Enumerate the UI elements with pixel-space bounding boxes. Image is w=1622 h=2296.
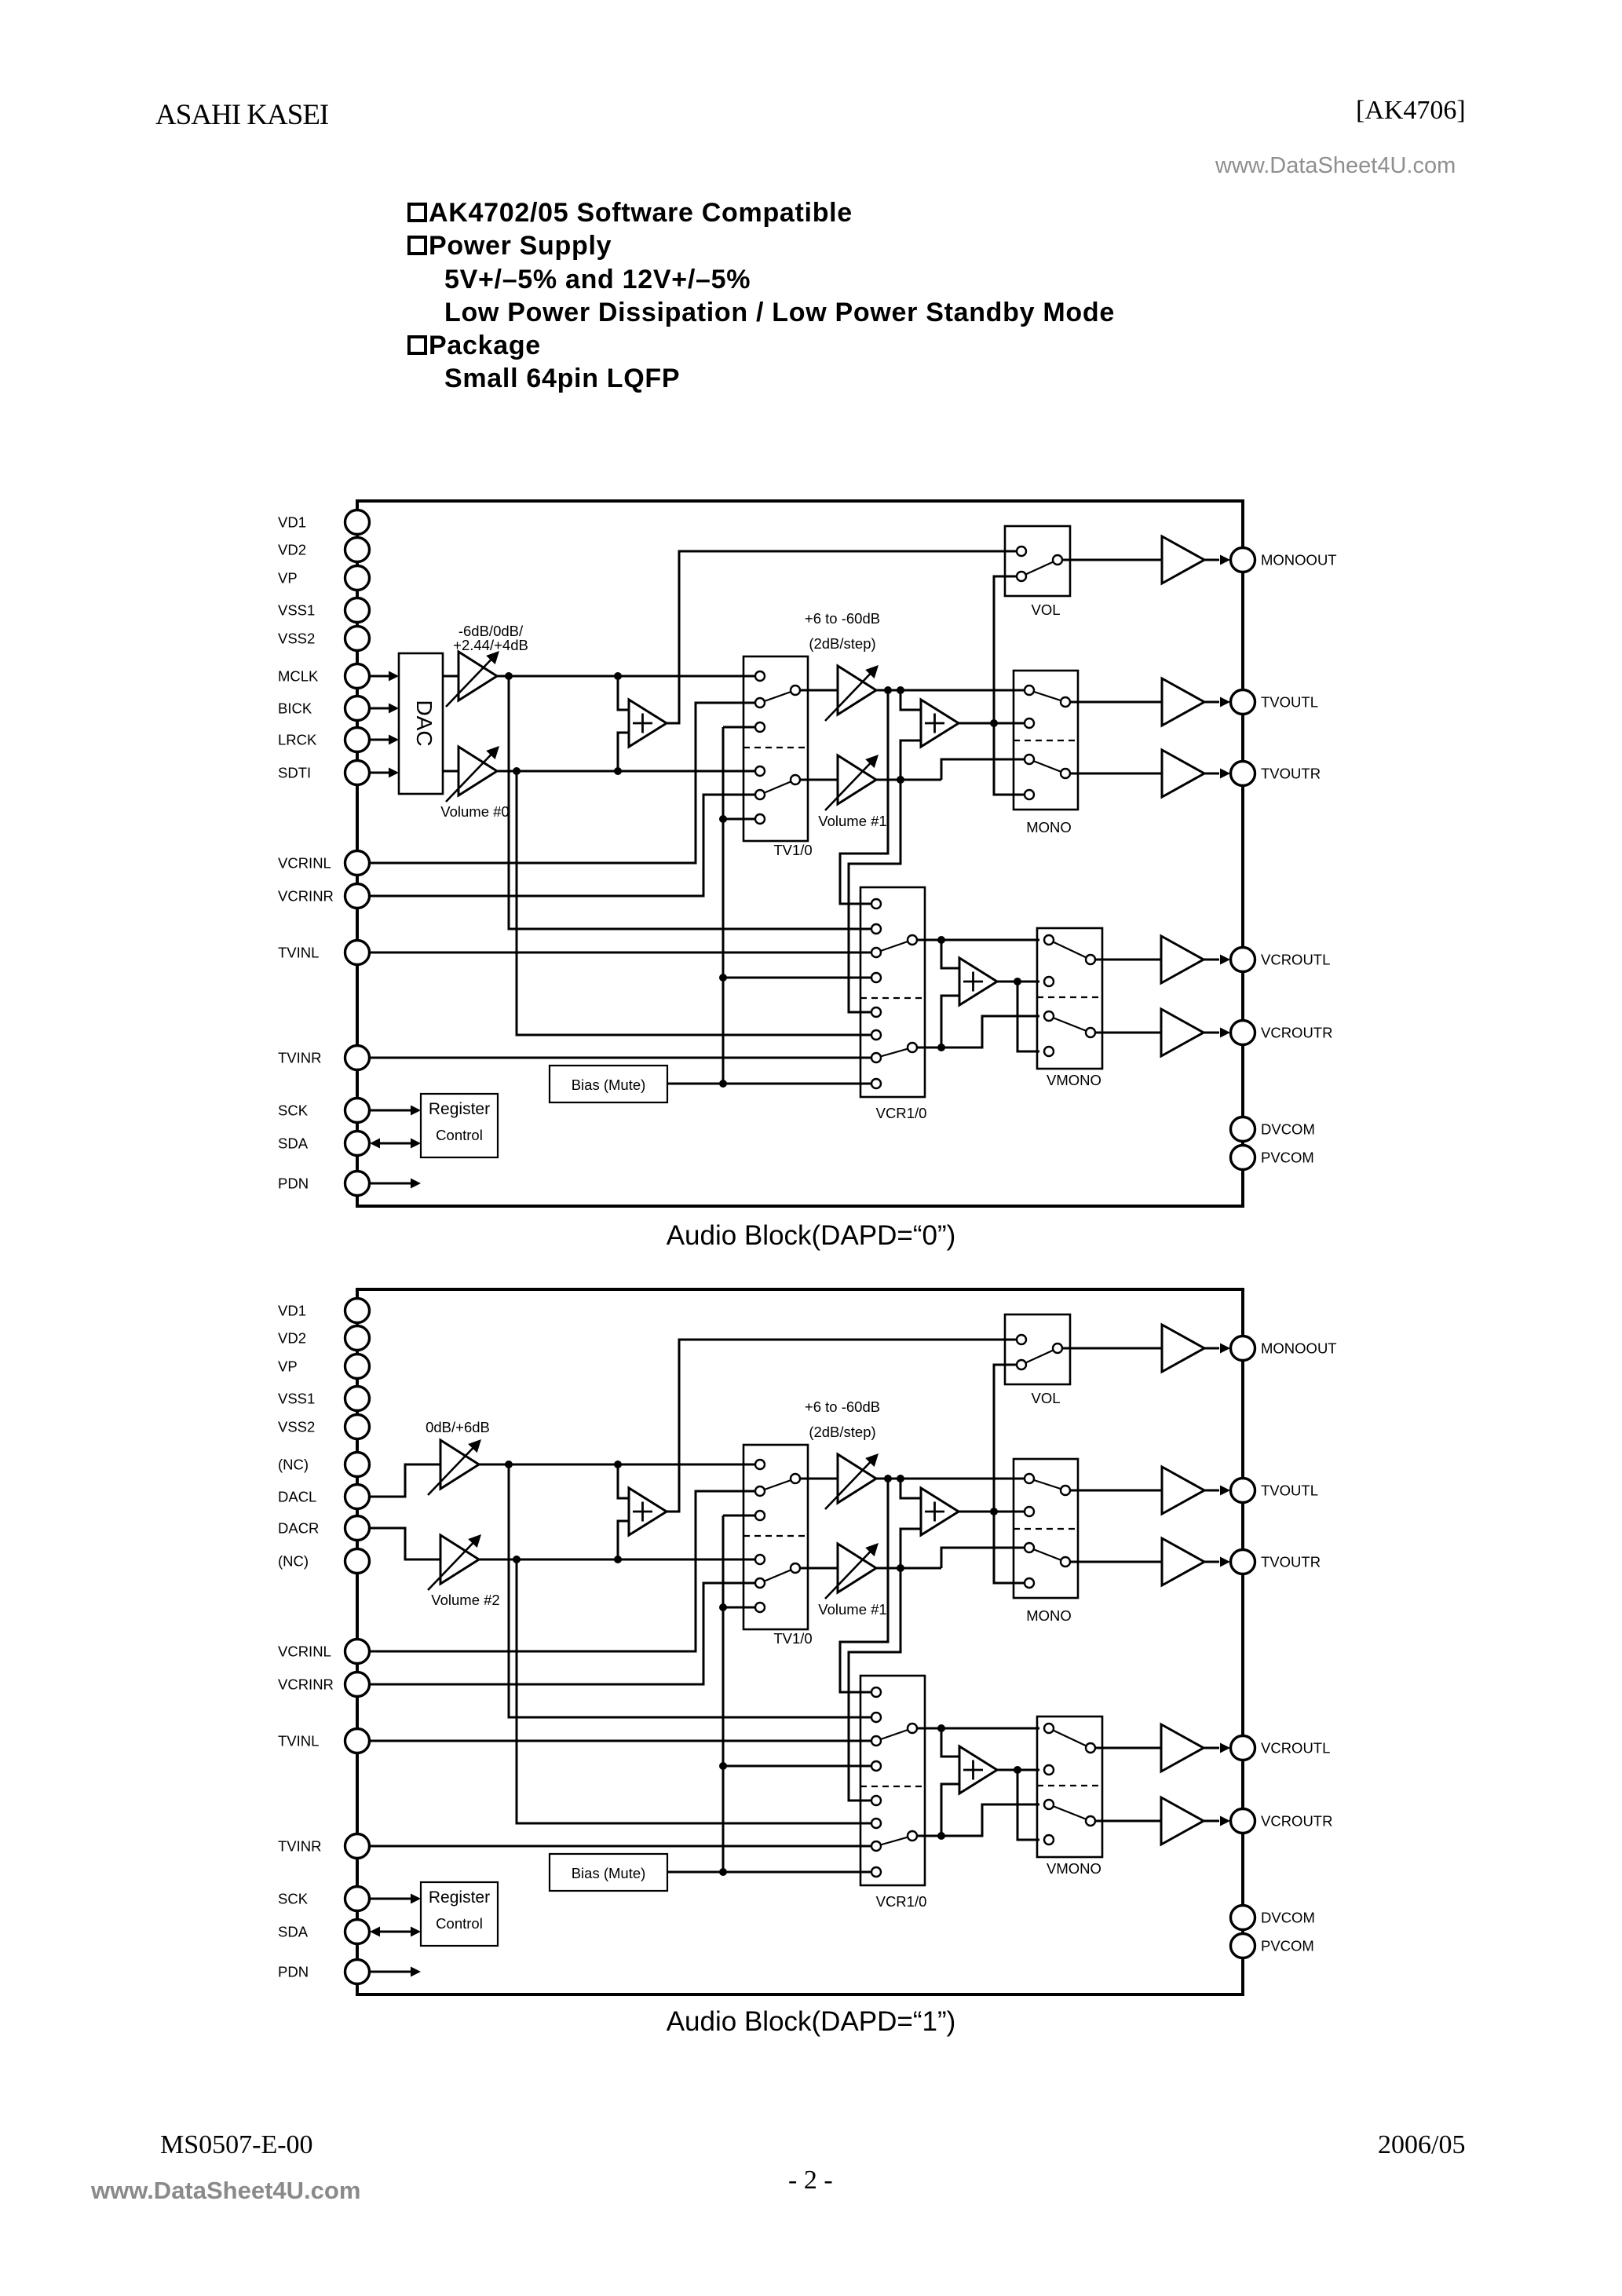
wire buffer to VCROUTL pin <box>1204 959 1219 961</box>
svg-text:VSS2: VSS2 <box>278 631 315 647</box>
switch VOL contact pin 2 <box>1017 1360 1026 1369</box>
junction Vol1-L / U2 feed <box>897 1475 904 1483</box>
junction Vol1-L / U2 feed <box>897 686 904 694</box>
svg-text:TV1/0: TV1/0 <box>773 1630 812 1647</box>
svg-text:VD2: VD2 <box>278 1330 306 1347</box>
wire BIAS to VCR1/0 pin 4 <box>723 1765 871 1768</box>
switch MONO common L <box>1061 1486 1070 1495</box>
switch MONO common R <box>1061 1557 1070 1567</box>
junction BIAS rail / VCR1/0 pin 4 <box>719 1762 727 1770</box>
svg-text:VSS1: VSS1 <box>278 602 315 619</box>
switch VMONO common L <box>1086 955 1095 964</box>
wire VMONO common L to VCROUTL buffer <box>1095 959 1161 961</box>
svg-text:PDN: PDN <box>278 1175 309 1192</box>
switch MONO contact pin 3 <box>1025 1543 1034 1552</box>
switch block VMONO outline <box>1037 928 1102 1069</box>
svg-text:DAC: DAC <box>412 700 437 746</box>
svg-text:SDA: SDA <box>278 1924 309 1940</box>
wire mono node to MONO pin 4 <box>994 723 1025 795</box>
svg-text:VP: VP <box>278 570 298 587</box>
footer: date 2006/05 <box>1378 2130 1465 2160</box>
svg-text:TVOUTL: TVOUTL <box>1261 694 1318 711</box>
pin VP <box>345 1355 370 1379</box>
footer: page number - 2 - <box>788 2166 833 2195</box>
wire VCRINR to TV1/0 pin 5 <box>370 795 754 896</box>
svg-text:Control: Control <box>436 1127 483 1143</box>
pin SDA <box>345 1132 370 1156</box>
wire LRCK to DAC input <box>370 739 390 741</box>
switch VMONO lever R <box>1049 1804 1090 1821</box>
svg-text:DACL: DACL <box>278 1489 316 1505</box>
switch VMONO lever L <box>1049 940 1090 960</box>
control block Register Control <box>421 1094 498 1157</box>
switch VMONO contact pin 2 <box>1044 1765 1054 1775</box>
op-amp U2 (L+R mix for MONO) <box>921 1488 959 1535</box>
svg-text:DACR: DACR <box>278 1520 319 1537</box>
switch MONO contact pin 3 <box>1025 755 1034 764</box>
switch TV1/0 contact pin 5 <box>755 790 765 799</box>
svg-text:Audio Block(DAPD=“0”): Audio Block(DAPD=“0”) <box>667 1220 956 1251</box>
pin TVOUTL <box>1231 690 1255 715</box>
svg-text:0dB/+6dB: 0dB/+6dB <box>426 1419 490 1435</box>
switch VCR1/0 common L <box>908 935 917 945</box>
wire VCR1/0 common R to VMONO pin 3 <box>917 1016 1039 1047</box>
svg-text:VCRINR: VCRINR <box>278 888 334 905</box>
switch VCR1/0 contact pin 2 <box>871 924 881 934</box>
wire TV1/0 common L to Volume #1 L <box>800 689 838 692</box>
switch MONO divider <box>1014 740 1078 741</box>
svg-text:Volume #1: Volume #1 <box>818 1601 886 1618</box>
wire VCR1/0 common L to VMONO pin 1 <box>917 1727 1039 1730</box>
switch block VOL outline <box>1005 526 1070 596</box>
svg-text:VMONO: VMONO <box>1047 1860 1101 1877</box>
switch block MONO outline <box>1014 671 1078 810</box>
control block Register Control <box>421 1882 498 1946</box>
switch VCR1/0 lever R <box>876 1047 912 1058</box>
pin TVOUTR <box>1231 1550 1255 1574</box>
wire Vol1-R to VCR1/0 pin 5 <box>849 1568 901 1801</box>
bias source block Bias (Mute) <box>550 1066 667 1102</box>
op-amp U1 (L+R mix for VOL) <box>629 700 667 747</box>
wire VCR-L to mixer U3 input <box>941 1728 959 1757</box>
svg-text:TVOUTR: TVOUTR <box>1261 766 1321 782</box>
wire buffer to TVOUTL pin <box>1204 701 1219 704</box>
wire Bias output to VCR1/0 pin 8 <box>667 1083 871 1085</box>
wire MCLK to DAC input <box>370 675 390 678</box>
svg-text:TVINL: TVINL <box>278 945 319 961</box>
wire BIAS to VCR1/0 pin 4 <box>723 977 871 979</box>
volume amp Volume #1 R <box>838 1544 876 1592</box>
switch VMONO divider <box>1037 1785 1102 1786</box>
switch VOL common <box>1053 555 1062 565</box>
wire buffer to TVOUTL pin <box>1204 1490 1219 1492</box>
pin VCROUTR <box>1231 1809 1255 1834</box>
svg-text:VMONO: VMONO <box>1047 1072 1101 1088</box>
wire Vol1-R jog to MONO pin 3 <box>941 1548 1025 1568</box>
wire L line branch to VCR1/0 pin 2 <box>509 1464 871 1717</box>
svg-text:(2dB/step): (2dB/step) <box>809 635 875 652</box>
DAC block U-DAC <box>399 653 443 794</box>
junction on L line at x648 <box>505 672 513 680</box>
pin SDA <box>345 1920 370 1944</box>
svg-text:Bias (Mute): Bias (Mute) <box>572 1865 646 1881</box>
footer: document number MS0507-E-00 <box>160 2130 313 2160</box>
switch TV1/0 contact pin 2 <box>755 1486 765 1496</box>
switch TV1/0 contact pin 3 <box>755 1511 765 1520</box>
switch VMONO contact pin 1 <box>1044 1724 1054 1733</box>
watermark www.DataSheet4U.com (top right) <box>1215 153 1456 179</box>
svg-text:MONO: MONO <box>1026 819 1072 835</box>
op-amp U3 (L+R mix for VMONO) <box>959 958 997 1005</box>
switch MONO lever R <box>1029 1548 1065 1562</box>
wire TVINL to VCR1/0 pin 3 <box>370 952 871 954</box>
switch VCR1/0 contact pin 8 <box>871 1867 881 1877</box>
pin VCROUTL <box>1231 1736 1255 1760</box>
switch VCR1/0 common R <box>908 1043 917 1052</box>
wire U3 output to VMONO pin 2 <box>997 981 1039 983</box>
wire VMONO common R to VCROUTR buffer <box>1095 1032 1161 1034</box>
wire buffer to TVOUTR pin <box>1204 1561 1219 1563</box>
svg-text:TV1/0: TV1/0 <box>773 842 812 858</box>
wire L line to mixer U1 input <box>618 676 629 710</box>
op-amp U2 (L+R mix for MONO) <box>921 700 959 747</box>
svg-text:VD1: VD1 <box>278 1303 306 1319</box>
feature line: 5V and 12V <box>444 266 751 293</box>
wire VOL common to MONOOUT buffer <box>1062 1347 1162 1350</box>
switch VOL lever <box>1021 560 1058 576</box>
volume amp Volume #2 R <box>440 1535 479 1584</box>
svg-text:MONOOUT: MONOOUT <box>1261 552 1337 569</box>
pin VCROUTL <box>1231 948 1255 972</box>
wire U3 mono to VMONO pin 4 <box>1017 1770 1039 1840</box>
watermark www.DataSheet4U.com (bottom left) <box>91 2177 360 2205</box>
wire VMONO common R to VCROUTR buffer <box>1095 1820 1161 1823</box>
junction on R line at x658 <box>513 1556 521 1563</box>
wire BICK to DAC input <box>370 707 390 710</box>
svg-text:VOL: VOL <box>1031 601 1060 618</box>
junction on R line at x787 <box>614 767 622 775</box>
switch TV1/0 divider <box>743 747 808 748</box>
feature bullet: AK4702/05 Software Compatible <box>407 199 853 226</box>
switch TV1/0 lever R <box>760 780 795 795</box>
switch VCR1/0 divider <box>860 997 925 999</box>
wire Volume #1 L output to MONO pin 1 <box>876 1478 1025 1480</box>
wire BIAS to TV1/0 pin 6 <box>723 1607 754 1609</box>
chip border outline (Audio Block DAPD="0") <box>357 501 1243 1206</box>
svg-text:DVCOM: DVCOM <box>1261 1121 1315 1138</box>
switch VCR1/0 contact pin 6 <box>871 1819 881 1828</box>
op-amp U1 (L+R mix for VOL) <box>629 1488 667 1535</box>
wire U2 output to MONO pin 2 <box>959 1511 1025 1513</box>
pin SCK <box>345 1099 370 1123</box>
volume amp Volume #0 L <box>458 652 497 700</box>
pin VSS2 <box>345 627 370 651</box>
wire Volume #1 L output to MONO pin 1 <box>876 689 1025 692</box>
svg-text:LRCK: LRCK <box>278 732 317 748</box>
junction BIAS rail / TV1/0 pin 6 <box>719 815 727 823</box>
pin TVINL <box>345 1729 370 1753</box>
junction Vol1-L / VCR feed <box>884 686 892 694</box>
wire VCR1/0 common R to VMONO pin 3 <box>917 1804 1039 1836</box>
svg-text:VCR1/0: VCR1/0 <box>876 1893 927 1910</box>
switch VMONO contact pin 4 <box>1044 1835 1054 1844</box>
switch VMONO contact pin 2 <box>1044 977 1054 986</box>
wire Vol1-R to VCR1/0 pin 5 <box>849 780 901 1012</box>
svg-text:Control: Control <box>436 1915 483 1932</box>
svg-text:MONOOUT: MONOOUT <box>1261 1340 1337 1357</box>
svg-text:(NC): (NC) <box>278 1457 309 1473</box>
junction BIAS rail / VCR1/0 pin 4 <box>719 974 727 982</box>
switch VCR1/0 contact pin 6 <box>871 1030 881 1040</box>
wire VCRINR to TV1/0 pin 5 <box>370 1583 754 1684</box>
switch TV1/0 contact pin 4 <box>755 766 765 776</box>
junction Vol1-L / VCR feed <box>884 1475 892 1483</box>
switch MONO contact pin 4 <box>1025 1578 1034 1588</box>
switch TV1/0 contact pin 5 <box>755 1578 765 1588</box>
switch TV1/0 common R <box>791 775 800 784</box>
wire buffer to VCROUTL pin <box>1204 1747 1219 1749</box>
pin TVINR <box>345 1046 370 1070</box>
wire SDTI to DAC input <box>370 772 390 774</box>
switch block TV1/0 outline <box>743 1445 808 1629</box>
pin BICK <box>345 696 370 721</box>
switch VCR1/0 common R <box>908 1831 917 1841</box>
junction on L line at x648 <box>505 1461 513 1468</box>
switch VOL contact pin 2 <box>1017 572 1026 581</box>
wire mono node to VOL pin 2 <box>994 576 1017 723</box>
wire VCR-R to mixer U3 input <box>941 1784 959 1836</box>
pin PVCOM <box>1231 1146 1255 1170</box>
pin MONOOUT <box>1231 1336 1255 1361</box>
switch block MONO outline <box>1014 1459 1078 1598</box>
junction on L line at x787 <box>614 1461 622 1468</box>
wire VCR-R to mixer U3 input <box>941 996 959 1047</box>
pin VCRINR <box>345 884 370 909</box>
wire mono node to VOL pin 2 <box>994 1365 1017 1512</box>
pin DVCOM <box>1231 1906 1255 1930</box>
switch MONO common R <box>1061 769 1070 778</box>
pin TVINL <box>345 941 370 965</box>
volume amp Volume #1 L <box>838 1454 876 1503</box>
switch VCR1/0 common L <box>908 1724 917 1733</box>
wire net DACR-OUT (R line) <box>479 1559 754 1561</box>
pin VD2 <box>345 1326 370 1351</box>
switch VCR1/0 contact pin 7 <box>871 1841 881 1851</box>
pin DACR <box>345 1516 370 1541</box>
buffer amp TVOUTL driver <box>1162 1467 1204 1514</box>
op-amp U3 (L+R mix for VMONO) <box>959 1746 997 1793</box>
svg-text:VOL: VOL <box>1031 1390 1060 1406</box>
switch VMONO lever L <box>1049 1728 1090 1748</box>
switch TV1/0 contact pin 3 <box>755 722 765 732</box>
svg-text:VSS2: VSS2 <box>278 1419 315 1435</box>
wire Vol1-R to mixer U2 input <box>901 1529 921 1568</box>
switch TV1/0 contact pin 1 <box>755 1460 765 1469</box>
switch VCR1/0 contact pin 2 <box>871 1713 881 1722</box>
svg-text:VCROUTL: VCROUTL <box>1261 952 1330 968</box>
svg-text:VD1: VD1 <box>278 514 306 531</box>
switch MONO contact pin 1 <box>1025 686 1034 695</box>
switch VMONO common L <box>1086 1743 1095 1753</box>
junction BIAS rail / TV1/0 pin 6 <box>719 1603 727 1611</box>
svg-text:+6 to -60dB: +6 to -60dB <box>805 610 880 627</box>
switch VMONO contact pin 3 <box>1044 1800 1054 1809</box>
switch VCR1/0 contact pin 4 <box>871 1761 881 1771</box>
svg-text:TVINR: TVINR <box>278 1838 322 1855</box>
feature bullet: Power Supply <box>407 232 612 259</box>
wire VCRINL to TV1/0 pin 2 <box>370 703 754 863</box>
wire buffer to TVOUTR pin <box>1204 773 1219 775</box>
junction on R line at x658 <box>513 767 521 775</box>
junction U3 output node <box>1014 978 1021 985</box>
wire net BIAS vertical rail <box>722 727 725 1084</box>
wire BIAS to TV1/0 pin 3 <box>723 726 754 729</box>
buffer amp TVOUTR driver <box>1162 750 1204 797</box>
wire Vol1-L to mixer U2 input <box>901 690 921 710</box>
pin (NC) <box>345 1453 370 1477</box>
junction on L line at x787 <box>614 672 622 680</box>
wire VCR-L to mixer U3 input <box>941 940 959 968</box>
buffer amp TVOUTL driver <box>1162 678 1204 726</box>
switch TV1/0 contact pin 2 <box>755 698 765 707</box>
wire buffer to MONOOUT pin <box>1204 1347 1219 1350</box>
switch VMONO common R <box>1086 1028 1095 1037</box>
svg-text:+2.44/+4dB: +2.44/+4dB <box>453 637 528 653</box>
buffer amp VCROUTL driver <box>1161 1724 1204 1771</box>
svg-text:+6 to -60dB: +6 to -60dB <box>805 1398 880 1415</box>
switch MONO divider <box>1014 1528 1078 1530</box>
wire SCK to Register Control <box>370 1898 411 1900</box>
wire VMONO common L to VCROUTL buffer <box>1095 1747 1161 1749</box>
junction U2 output node <box>990 719 998 727</box>
wire BIAS to TV1/0 pin 3 <box>723 1515 754 1517</box>
junction Vol1-R / U2 and VCR feed <box>897 776 904 784</box>
svg-text:VCRINR: VCRINR <box>278 1676 334 1693</box>
switch TV1/0 contact pin 6 <box>755 814 765 824</box>
svg-text:BICK: BICK <box>278 700 312 717</box>
switch VOL contact pin 1 <box>1017 1335 1026 1344</box>
junction on R line at x787 <box>614 1556 622 1563</box>
svg-text:Audio Block(DAPD=“1”): Audio Block(DAPD=“1”) <box>667 2006 956 2037</box>
svg-text:PVCOM: PVCOM <box>1261 1938 1314 1954</box>
svg-text:Volume #2: Volume #2 <box>431 1592 499 1608</box>
switch VCR1/0 lever R <box>876 1836 912 1846</box>
switch MONO contact pin 2 <box>1025 1507 1034 1516</box>
svg-text:SDTI: SDTI <box>278 765 311 781</box>
pin VCRINL <box>345 851 370 876</box>
pin PDN <box>345 1172 370 1196</box>
switch VOL lever <box>1021 1348 1058 1365</box>
pin TVINR <box>345 1834 370 1859</box>
svg-text:VCR1/0: VCR1/0 <box>876 1105 927 1121</box>
switch TV1/0 divider <box>743 1535 808 1537</box>
wire TVINR to VCR1/0 pin 7 <box>370 1057 871 1059</box>
pin VD2 <box>345 538 370 562</box>
junction BIAS rail / bias feed <box>719 1868 727 1876</box>
pin VSS2 <box>345 1415 370 1439</box>
chip border outline (Audio Block DAPD="1") <box>357 1289 1243 1994</box>
wire U2 output to MONO pin 2 <box>959 722 1025 725</box>
wire net DACL-OUT (L line) <box>479 1464 754 1466</box>
pin VD1 <box>345 1299 370 1323</box>
wire Bias output to VCR1/0 pin 8 <box>667 1871 871 1874</box>
switch VCR1/0 divider <box>860 1786 925 1787</box>
junction VCR common L node <box>937 1724 945 1732</box>
switch TV1/0 common L <box>791 1474 800 1483</box>
pin VCRINR <box>345 1673 370 1697</box>
buffer amp TVOUTR driver <box>1162 1538 1204 1585</box>
switch TV1/0 common L <box>791 686 800 695</box>
wire TV1/0 common R to Volume #1 R <box>800 1567 838 1570</box>
switch MONO contact pin 2 <box>1025 718 1034 728</box>
feature line: Low Power Dissipation <box>444 299 1115 326</box>
switch block VCR1/0 outline <box>860 887 925 1097</box>
switch VCR1/0 lever L <box>876 1728 912 1741</box>
svg-text:SCK: SCK <box>278 1102 309 1119</box>
svg-text:DVCOM: DVCOM <box>1261 1910 1315 1926</box>
svg-text:VCROUTR: VCROUTR <box>1261 1813 1332 1830</box>
svg-text:PDN: PDN <box>278 1964 309 1980</box>
junction VCR common L node <box>937 936 945 944</box>
wire DACR to volume amp <box>370 1528 440 1559</box>
wire U1 output to VOL switch pin 1 <box>667 1340 1017 1512</box>
switch TV1/0 contact pin 6 <box>755 1603 765 1612</box>
svg-text:VP: VP <box>278 1358 298 1375</box>
switch TV1/0 lever L <box>760 690 795 703</box>
switch VCR1/0 contact pin 1 <box>871 1687 881 1697</box>
svg-text:Register: Register <box>429 1100 490 1118</box>
wire MONO common R to TVOUTR buffer <box>1070 773 1162 775</box>
svg-text:(2dB/step): (2dB/step) <box>809 1424 875 1440</box>
svg-text:MCLK: MCLK <box>278 668 319 685</box>
switch VOL contact pin 1 <box>1017 547 1026 556</box>
wire Vol1-L to mixer U2 input <box>901 1479 921 1498</box>
switch block VMONO outline <box>1037 1717 1102 1857</box>
wire VCRINL to TV1/0 pin 2 <box>370 1491 754 1651</box>
switch VCR1/0 contact pin 1 <box>871 899 881 909</box>
wire PDN input <box>370 1183 411 1185</box>
switch MONO lever L <box>1029 1479 1065 1490</box>
switch VMONO contact pin 3 <box>1044 1011 1054 1021</box>
volume amp Volume #0 R <box>458 747 497 795</box>
junction VCR common R node <box>937 1044 945 1051</box>
switch block VOL outline <box>1005 1314 1070 1384</box>
switch VMONO common R <box>1086 1816 1095 1826</box>
svg-text:VCROUTR: VCROUTR <box>1261 1025 1332 1041</box>
switch VCR1/0 contact pin 8 <box>871 1079 881 1088</box>
wire mono node to MONO pin 4 <box>994 1512 1025 1583</box>
wire R line to mixer U1 input <box>618 733 629 771</box>
wire Vol1-R to mixer U2 input <box>901 740 921 780</box>
switch block TV1/0 outline <box>743 656 808 841</box>
wire TV1/0 common R to Volume #1 R <box>800 779 838 781</box>
wire MONO common R to TVOUTR buffer <box>1070 1561 1162 1563</box>
svg-text:VD2: VD2 <box>278 542 306 558</box>
buffer amp MONOOUT driver <box>1162 536 1204 583</box>
buffer amp VCROUTL driver <box>1161 936 1204 983</box>
switch MONO common L <box>1061 697 1070 707</box>
header: company name ASAHI KASEI <box>155 98 328 132</box>
junction BIAS rail / bias feed <box>719 1080 727 1088</box>
svg-text:VSS1: VSS1 <box>278 1391 315 1407</box>
wire Volume #1 R output <box>876 1567 941 1570</box>
pin VD1 <box>345 510 370 535</box>
svg-text:MONO: MONO <box>1026 1607 1072 1624</box>
wire buffer to MONOOUT pin <box>1204 559 1219 561</box>
switch VMONO contact pin 1 <box>1044 935 1054 945</box>
switch VMONO contact pin 4 <box>1044 1047 1054 1056</box>
volume amp Volume #2 L <box>440 1440 479 1489</box>
